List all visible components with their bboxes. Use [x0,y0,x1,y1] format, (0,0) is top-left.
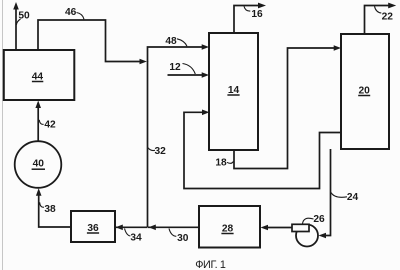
svg-text:ФИГ. 1: ФИГ. 1 [195,259,226,270]
wire 38 from block 36 to circle 40 [36,188,71,227]
label 36 [87,223,99,234]
leader 18 [227,161,234,163]
leader 38 [40,202,44,207]
svg-text:48: 48 [165,36,177,47]
svg-text:34: 34 [130,233,142,244]
svg-text:16: 16 [251,9,263,20]
leader 46 [77,13,85,20]
svg-text:30: 30 [177,233,189,244]
svg-text:46: 46 [65,7,77,18]
leader 32 [148,148,155,151]
svg-text:12: 12 [169,62,181,73]
svg-text:26: 26 [313,214,325,225]
wire 34 from node J2 into block 36 [116,226,148,228]
wire pump 26 outlet into block 28 [261,225,293,231]
page edge line [2,0,4,270]
wire 30 from block 28 to node J2 [148,226,199,228]
leader 34 [125,229,131,237]
leader 12 [183,64,196,75]
svg-text:24: 24 [347,192,359,203]
wire recycle from block 20 into block 14 [184,110,341,189]
label 44 [32,72,44,83]
block 44 [4,50,75,100]
block 36 [71,211,115,242]
label 28 [221,224,233,235]
compressor circle 40 [15,141,62,188]
leader 42 [39,120,43,125]
arrowhead of 46 at node J1 [140,59,147,65]
wire 24 from block 20 bottom to pump 26 [319,149,331,238]
wire 12 into block 14 [168,72,210,78]
wire 18 from block 14 bottom into block 20 [234,45,341,168]
wire 42 from circle 40 to block 44 [35,101,41,142]
svg-text:18: 18 [215,158,227,169]
leader 26 [303,218,314,224]
wire 32 from node J1 down to node J2 [147,62,149,228]
svg-text:42: 42 [44,120,56,131]
leader 16 [244,6,250,11]
leader 22 [375,6,382,13]
svg-text:38: 38 [44,204,56,215]
pump 26 [292,224,318,246]
block 20 [341,34,389,149]
label 20 [358,86,370,97]
svg-text:50: 50 [18,11,30,22]
leader 50 [16,19,20,25]
arrowhead 34 at block 36 [116,225,123,231]
leader 48 [177,39,187,47]
label 40 [32,159,45,170]
svg-text:32: 32 [155,146,167,157]
label 14 [227,85,239,96]
wire 48 from node J1 into block 14 [148,44,210,62]
leader 24 [331,193,347,198]
svg-text:40: 40 [33,159,45,170]
block 14 [209,33,258,150]
wire 22 out of block 20 top [365,3,397,34]
wire 46 from 44 top to junction [38,20,142,62]
wire 50 out of block 44 top [13,2,19,50]
block 28 [199,206,260,248]
leader 30 [169,229,176,237]
svg-text:22: 22 [382,12,394,23]
arrowhead at node J2 [149,225,156,231]
wire 16 out of block 14 top [234,3,266,33]
